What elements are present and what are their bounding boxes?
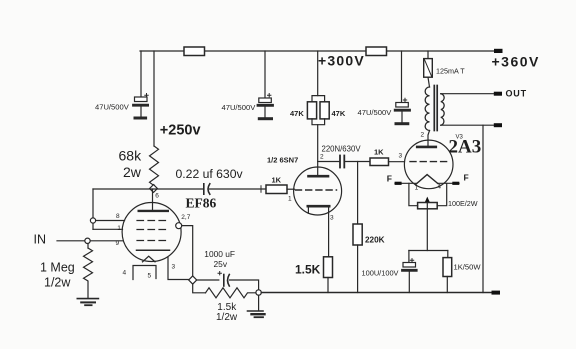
svg-text:1K: 1K [374, 148, 384, 157]
svg-text:1.5K: 1.5K [295, 263, 321, 277]
svg-text:1: 1 [117, 225, 121, 232]
svg-text:2A3: 2A3 [449, 137, 482, 158]
svg-text:2: 2 [320, 154, 324, 161]
svg-text:+300V: +300V [318, 53, 365, 69]
svg-text:1K/50W: 1K/50W [454, 263, 482, 272]
svg-text:2,7: 2,7 [181, 214, 190, 221]
svg-text:9: 9 [116, 240, 120, 247]
svg-text:4: 4 [123, 270, 127, 277]
svg-text:1/2w: 1/2w [216, 312, 238, 323]
svg-text:47U/500V: 47U/500V [358, 108, 393, 117]
svg-text:3: 3 [172, 264, 176, 271]
svg-text:+250v: +250v [160, 122, 201, 138]
svg-text:IN: IN [34, 233, 47, 247]
svg-text:6: 6 [155, 192, 159, 199]
svg-text:1: 1 [288, 196, 292, 203]
svg-text:1/2w: 1/2w [44, 276, 71, 290]
svg-text:47K: 47K [290, 109, 304, 118]
svg-text:125mA T: 125mA T [436, 67, 465, 76]
svg-text:68k: 68k [119, 148, 143, 164]
svg-text:1000 uF: 1000 uF [204, 249, 235, 259]
svg-text:47U/500V: 47U/500V [95, 103, 130, 112]
svg-text:47K: 47K [332, 109, 346, 118]
svg-text:+360V: +360V [492, 54, 540, 70]
svg-text:4: 4 [437, 183, 441, 190]
svg-text:3: 3 [399, 153, 403, 160]
svg-text:2: 2 [421, 132, 425, 139]
svg-text:OUT: OUT [506, 89, 527, 99]
svg-text:F: F [387, 174, 392, 184]
svg-text:2w: 2w [123, 164, 142, 180]
svg-text:5: 5 [148, 273, 152, 280]
svg-text:1: 1 [415, 184, 419, 191]
svg-text:25v: 25v [214, 259, 228, 269]
svg-text:1K: 1K [272, 176, 282, 185]
svg-text:220N/630V: 220N/630V [322, 144, 362, 153]
svg-text:EF86: EF86 [186, 196, 217, 211]
svg-text:V3: V3 [456, 135, 464, 141]
svg-text:8: 8 [116, 213, 120, 220]
svg-text:100U/100V: 100U/100V [362, 268, 399, 277]
svg-text:1 Meg: 1 Meg [40, 261, 75, 275]
svg-text:3: 3 [330, 215, 334, 222]
svg-text:220K: 220K [365, 236, 385, 245]
svg-text:F: F [464, 173, 469, 183]
svg-text:47U/500V: 47U/500V [222, 103, 257, 112]
svg-text:1/2 6SN7: 1/2 6SN7 [267, 156, 298, 165]
svg-text:0.22 uf 630v: 0.22 uf 630v [176, 167, 244, 181]
svg-text:100E/2W: 100E/2W [448, 199, 478, 208]
